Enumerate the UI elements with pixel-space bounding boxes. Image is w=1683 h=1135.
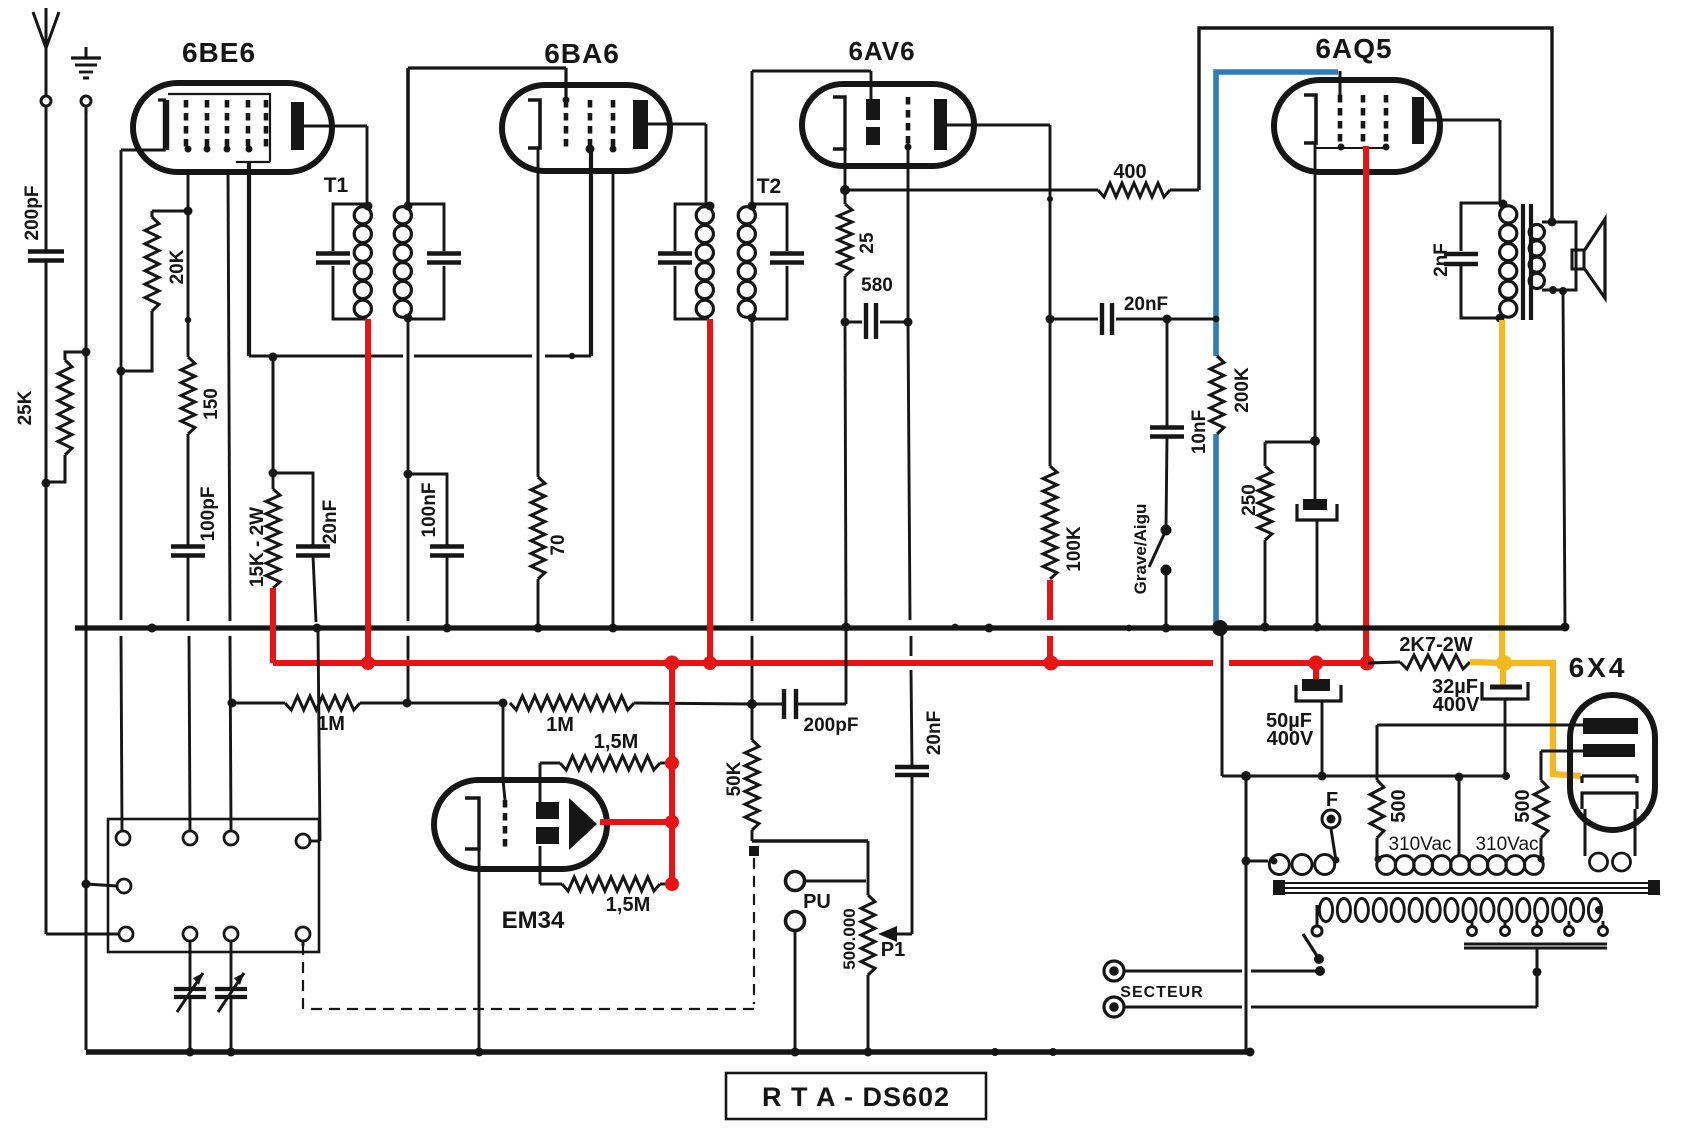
junction dots main bus [148, 624, 157, 633]
6X4 heater [1582, 793, 1637, 809]
junction dot T1 secondary bottom [404, 314, 413, 323]
capacitor 32uF [1490, 685, 1522, 690]
wire 400 rail [845, 189, 1098, 192]
shield square [749, 846, 759, 856]
mains switch [1303, 934, 1319, 959]
junction dot pin5 [82, 880, 91, 889]
svg-text:100nF: 100nF [419, 483, 440, 538]
svg-text:2nF: 2nF [1431, 243, 1452, 277]
P1 wiper arrow [878, 926, 897, 942]
6AQ5 grid 2 [1361, 95, 1366, 147]
junction dot T2 secondary bottom [748, 314, 757, 323]
wire yellow junction [1470, 662, 1504, 663]
wire yellow to 32uF [1500, 663, 1506, 685]
6BE6 grid 5 [264, 100, 269, 150]
resistor 1M a [232, 702, 285, 705]
junction dot 580 left [841, 318, 850, 327]
resistor 400 [1098, 183, 1170, 197]
wire pin4 to bus [318, 629, 320, 841]
svg-text:150: 150 [201, 388, 222, 420]
junction dot OPT top [1499, 200, 1508, 209]
OPT secondary coil [1529, 225, 1544, 240]
T1 primary cap [316, 251, 350, 255]
wire speaker return [1563, 291, 1565, 626]
svg-text:1M: 1M [317, 713, 345, 735]
svg-text:F: F [1326, 789, 1338, 811]
svg-text:15K - 2W: 15K - 2W [247, 507, 268, 587]
wire main bus [75, 625, 1565, 630]
svg-text:200K: 200K [1232, 367, 1253, 413]
svg-text:580: 580 [861, 275, 893, 296]
resistor 25K [65, 352, 86, 360]
wire AGC mid [407, 702, 503, 705]
coil box pin 4 [296, 834, 310, 848]
junction dot OPT sec bottom [1549, 286, 1557, 294]
wire 6BE6 g1 down [187, 172, 190, 320]
jack SECTEUR bottom [1104, 997, 1124, 1017]
6AQ5 grid 1 [1338, 95, 1343, 147]
junction dot detector [747, 699, 757, 709]
wire 6BE6 anode to T1 [304, 125, 367, 128]
wire yellow B+ OPT [1499, 320, 1505, 661]
svg-text:R T A - DS602: R T A - DS602 [762, 1082, 950, 1112]
jack SECTEUR top [1104, 961, 1124, 981]
heater winding A [1246, 860, 1268, 863]
junction dot T1 secondary top [404, 202, 413, 211]
wire 6X4 plate1 [1377, 724, 1583, 727]
wire EM34 cathode down [478, 849, 481, 1052]
svg-text:6AQ5: 6AQ5 [1315, 33, 1392, 64]
title box [726, 1073, 986, 1119]
coil box pin 2 [183, 831, 197, 845]
wire 50K to P1 [751, 830, 754, 841]
svg-text:100K: 100K [1064, 526, 1085, 572]
coil box pin 9 [296, 927, 310, 941]
svg-text:250: 250 [1239, 484, 1260, 516]
wire 6BA6 anode to T2 [647, 123, 706, 126]
antenna [33, 12, 46, 48]
wire B- rail [1221, 628, 1224, 776]
EM34 target [569, 798, 597, 850]
wire screen rail [249, 355, 403, 358]
wire blue 6AQ5 grid [1216, 72, 1338, 319]
resistor 250 [1265, 441, 1315, 444]
junction dot blue-bus [1212, 620, 1228, 636]
OPT primary box [1461, 203, 1502, 251]
svg-text:20nF: 20nF [1124, 294, 1168, 315]
capacitor 10nF [1166, 319, 1169, 427]
wire 6BE6 cathode down [121, 149, 166, 152]
variable capacitor CV2 [230, 941, 233, 987]
svg-text:P1: P1 [881, 939, 905, 961]
coil box pin 6 [119, 927, 133, 941]
OPT secondary box [1542, 222, 1576, 290]
6AV6 diode plate lower [866, 127, 880, 145]
wire 6AV6 grid down [907, 147, 910, 322]
svg-text:50K: 50K [724, 761, 745, 796]
capacitor 200pF det [752, 703, 782, 706]
T1 secondary cap [427, 251, 461, 255]
T2 secondary box [752, 204, 787, 251]
resistor 70 [531, 477, 545, 579]
wire 100pF to gang [187, 556, 190, 621]
6X4 cathode [1582, 774, 1637, 777]
wire 6AQ5 cathode down [1314, 143, 1317, 441]
6BE6 anode [291, 102, 304, 150]
wire 6AQ5 screen red [1363, 146, 1369, 662]
resistor 1.5M a [540, 762, 560, 765]
resistor 15K-2W [272, 473, 275, 489]
junction dot heater tap [1242, 857, 1251, 866]
resistor 500 right [1534, 780, 1548, 838]
primary left terminal [1312, 926, 1322, 936]
svg-text:400V: 400V [1267, 728, 1314, 750]
resistor 1.5M b [540, 883, 562, 886]
capacitor 2nF [1444, 252, 1478, 257]
wire red 100K [1047, 580, 1053, 620]
wire 6BE6 screen down [247, 163, 251, 356]
ground terminal [85, 47, 88, 57]
svg-text:20nF: 20nF [924, 711, 945, 755]
svg-text:100pF: 100pF [198, 487, 219, 542]
junction dot screen rail [269, 353, 278, 362]
resistor 50K [751, 704, 754, 740]
junction dots red bus [361, 656, 375, 670]
wire EM34 grid up [502, 703, 505, 780]
junction dot blue tap [1213, 316, 1220, 323]
wire antenna lead down [45, 106, 48, 251]
junction dot 20nF top left [1046, 315, 1055, 324]
capacitor 20nF top [1050, 318, 1098, 321]
T2 secondary coil [738, 207, 755, 224]
wire HV center tap [1458, 777, 1461, 855]
T1 secondary coil [394, 207, 411, 224]
wire grid stub [1339, 71, 1342, 95]
svg-text:500: 500 [1512, 789, 1534, 822]
6AV6 cathode [833, 97, 845, 149]
wire T2 secondary to 6AV6 diode [751, 71, 754, 204]
wire anode to 100K line [947, 124, 1050, 127]
capacitor cathode bypass 6AQ5 [1314, 441, 1317, 499]
capacitor 200pF antenna [28, 249, 64, 253]
wire bottom bus [86, 1049, 1250, 1054]
coil box pin 3 [224, 831, 238, 845]
svg-text:310Vac: 310Vac [1475, 834, 1538, 855]
junction dot 6AQ5 cathode net [1310, 436, 1320, 446]
shield dashed line [753, 858, 755, 1004]
svg-text:6BE6: 6BE6 [182, 37, 256, 68]
6AQ5 grid 3 [1384, 95, 1389, 147]
6BE6 cathode [163, 100, 169, 150]
junction dot OPT sec top [1548, 218, 1557, 227]
svg-text:400: 400 [1113, 161, 1146, 183]
primary winding [1319, 899, 1332, 922]
wire 70 to bus [537, 579, 540, 628]
junction dot 580 right [904, 318, 913, 327]
EM34 electrode upper [536, 802, 559, 819]
junction dot 100nF tap [404, 470, 413, 479]
T2 primary box [675, 204, 710, 251]
6AV6 anode [934, 99, 947, 150]
transformer core [1277, 882, 1658, 884]
junction dot AGC left [228, 699, 237, 708]
capacitor 50uF [1313, 663, 1319, 679]
coil box pin 1 [116, 831, 130, 845]
junction dots red EM34 [665, 756, 679, 770]
wire 6AV6 cathode down [844, 149, 847, 190]
junction dot EM34 grid tap [499, 699, 508, 708]
voltage selector bar [1464, 943, 1607, 946]
wire red EM34 feed [669, 663, 675, 884]
svg-text:SECTEUR: SECTEUR [1120, 984, 1203, 1001]
svg-text:25K: 25K [15, 390, 36, 425]
resistor 500 left [1370, 780, 1384, 838]
junction dot 10nF tap [1163, 315, 1172, 324]
svg-text:6BA6: 6BA6 [544, 38, 620, 69]
OPT primary coil [1500, 206, 1517, 223]
svg-text:6AV6: 6AV6 [848, 36, 915, 66]
wire 6X4 plate2 [1541, 750, 1583, 753]
junction dot 20nF tap [269, 469, 278, 478]
6BA6 anode [633, 100, 648, 149]
svg-text:6X4: 6X4 [1569, 652, 1628, 683]
wire T1 secondary to 6BA6 grid [406, 68, 410, 204]
svg-text:70: 70 [548, 534, 569, 555]
svg-text:200pF: 200pF [804, 715, 859, 736]
6X4 plate 2 [1583, 744, 1635, 757]
6AQ5 anode [1412, 97, 1424, 144]
6X4 plate 1 [1583, 718, 1638, 734]
6AV6 diode plate upper [866, 99, 880, 120]
tube 6BE6 envelope [133, 83, 332, 172]
wire red T2 [707, 319, 713, 663]
EM34 cathode [465, 798, 479, 849]
wire T2 secondary bottom down 50K line [751, 319, 754, 621]
jack PU bottom [786, 912, 805, 931]
wire red bus [270, 588, 276, 663]
resistor 2K7-2W [1368, 662, 1400, 663]
T2 primary coil [696, 207, 713, 224]
junction dot AGC mid [403, 699, 412, 708]
coil box pin 8 [224, 927, 238, 941]
6BE6 grid 4 [246, 100, 251, 150]
junction dot yellow [1496, 655, 1512, 671]
OPT core [1521, 204, 1525, 320]
tube 6X4 envelope [1570, 695, 1655, 830]
wire 150 to 100pF [187, 434, 190, 546]
svg-text:10nF: 10nF [1189, 410, 1210, 454]
junction dot 25K top [82, 348, 91, 357]
svg-text:25: 25 [857, 232, 878, 254]
T2 primary cap [658, 251, 692, 255]
svg-text:1M: 1M [546, 714, 574, 736]
svg-text:400V: 400V [1433, 694, 1480, 716]
wire 400 to top rail [1170, 189, 1199, 192]
6BE6 grid 2 [205, 100, 210, 150]
resistor 100K [1043, 466, 1057, 579]
svg-text:1,5M: 1,5M [606, 894, 650, 916]
EM34 electrode lower [536, 827, 559, 844]
6AQ5 cathode [1304, 95, 1316, 143]
svg-text:T1: T1 [324, 174, 349, 197]
junction dot T1 primary top [364, 202, 373, 211]
T1 primary coil [354, 207, 371, 224]
wire 6BA6 cathode down [537, 148, 540, 477]
svg-text:EM34: EM34 [502, 907, 565, 934]
wire selector down [1536, 948, 1539, 1007]
primary taps [1471, 921, 1474, 926]
wire 20nF to P1 wiper [911, 775, 914, 934]
capacitor 20nF screen [273, 473, 313, 546]
wire ground lead down [85, 106, 88, 1050]
svg-text:500.000: 500.000 [840, 908, 859, 969]
svg-text:T2: T2 [757, 175, 782, 198]
svg-text:2K7-2W: 2K7-2W [1399, 634, 1472, 656]
svg-text:20K: 20K [167, 249, 188, 284]
6AQ5 suppressor tie [1315, 147, 1388, 149]
switch Grave/Aigu [1161, 525, 1172, 536]
resistor 25 [844, 190, 847, 204]
junction dot 6AV6 cathode [840, 185, 850, 195]
T1 primary box [333, 204, 368, 251]
6BE6 shield box [168, 94, 270, 162]
junction dot T2 secondary top [748, 202, 757, 211]
HV winding [1377, 856, 1396, 875]
capacitor 20nF det [895, 765, 929, 769]
capacitor 100nF [408, 474, 447, 546]
EM34 grid [503, 800, 508, 848]
wire 6BE6 g3 down [228, 172, 230, 621]
tube EM34 envelope [434, 780, 607, 869]
coil box [108, 819, 319, 952]
svg-text:500: 500 [1388, 789, 1410, 822]
junction dot 20K top [184, 207, 193, 216]
capacitor 100pF [171, 544, 205, 548]
svg-text:200pF: 200pF [22, 186, 43, 241]
resistor 20K [152, 210, 188, 213]
tube 6BA6 envelope [502, 85, 670, 171]
wire 6BA6 g3 down [612, 172, 615, 628]
T1 secondary box [408, 204, 444, 251]
junction dot 20K bottom [117, 367, 126, 376]
coil box pin 7 [183, 927, 197, 941]
potentiometer P1 [861, 895, 875, 975]
wire 6AQ5 anode to OPT [1424, 119, 1500, 122]
jack PU top [786, 872, 805, 891]
svg-text:310Vac: 310Vac [1388, 834, 1451, 855]
6AV6 grid [906, 97, 911, 147]
wire yellow to 6X4 cathode [1504, 663, 1581, 776]
svg-text:Grave/Aigu: Grave/Aigu [1131, 504, 1150, 595]
coil box pin 5 [117, 879, 131, 893]
tube 6AV6 envelope [802, 84, 974, 166]
resistor 200K [1210, 356, 1224, 434]
variable capacitor CV1 [189, 941, 192, 987]
junction dot OPT bottom [1496, 314, 1505, 323]
pilot lamp F [1322, 810, 1340, 828]
wire red T1 [365, 319, 371, 663]
wire T1 secondary bottom down [407, 319, 410, 621]
6BA6 grid 3 [611, 100, 616, 148]
6BA6 grid 2 [588, 100, 593, 148]
svg-text:PU: PU [803, 891, 831, 913]
junction dots bottom bus [186, 1048, 195, 1057]
junction dots B- rail [1241, 771, 1251, 781]
6BA6 grid 1 [564, 100, 569, 148]
capacitor 580 [845, 321, 862, 324]
6BE6 grid 1 [184, 100, 189, 150]
resistor 150 [181, 357, 195, 434]
speaker [1572, 250, 1584, 269]
junction dot 25K bottom [42, 479, 51, 488]
wire 100K top [1049, 319, 1052, 466]
6BE6 grid 3 [225, 100, 230, 150]
wire 15K-2W top [272, 357, 275, 473]
svg-text:20nF: 20nF [320, 500, 341, 544]
wire 25 to bus [844, 276, 847, 322]
T2 secondary cap [770, 251, 804, 255]
junction dot T2 primary top [706, 202, 715, 211]
resistor 1M b [510, 696, 634, 710]
tube 6AQ5 envelope [1274, 80, 1440, 172]
6BA6 cathode [528, 100, 540, 148]
svg-text:1,5M: 1,5M [594, 731, 638, 753]
